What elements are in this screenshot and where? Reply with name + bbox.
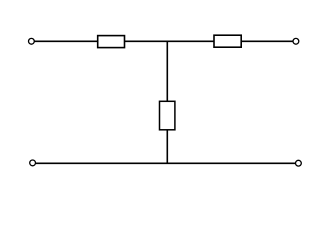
- wire T1 to R1: [34, 40, 97, 42]
- terminal T2 (output top): [293, 38, 299, 44]
- wire R3 to node B: [166, 130, 168, 164]
- terminal T1 (input top): [29, 38, 35, 44]
- wire R2 to T2: [241, 40, 293, 42]
- terminal T4 (output bottom): [296, 160, 302, 166]
- resistor R3 (shunt): [160, 101, 175, 130]
- terminal T3 (input bottom): [30, 160, 36, 166]
- resistor R1: [98, 36, 125, 48]
- wire node A to R3: [166, 41, 168, 102]
- wire R1 to R2 through node A: [125, 40, 215, 42]
- wire bottom rail T3 to T4 through node B: [35, 162, 295, 164]
- resistor R2: [214, 35, 241, 47]
